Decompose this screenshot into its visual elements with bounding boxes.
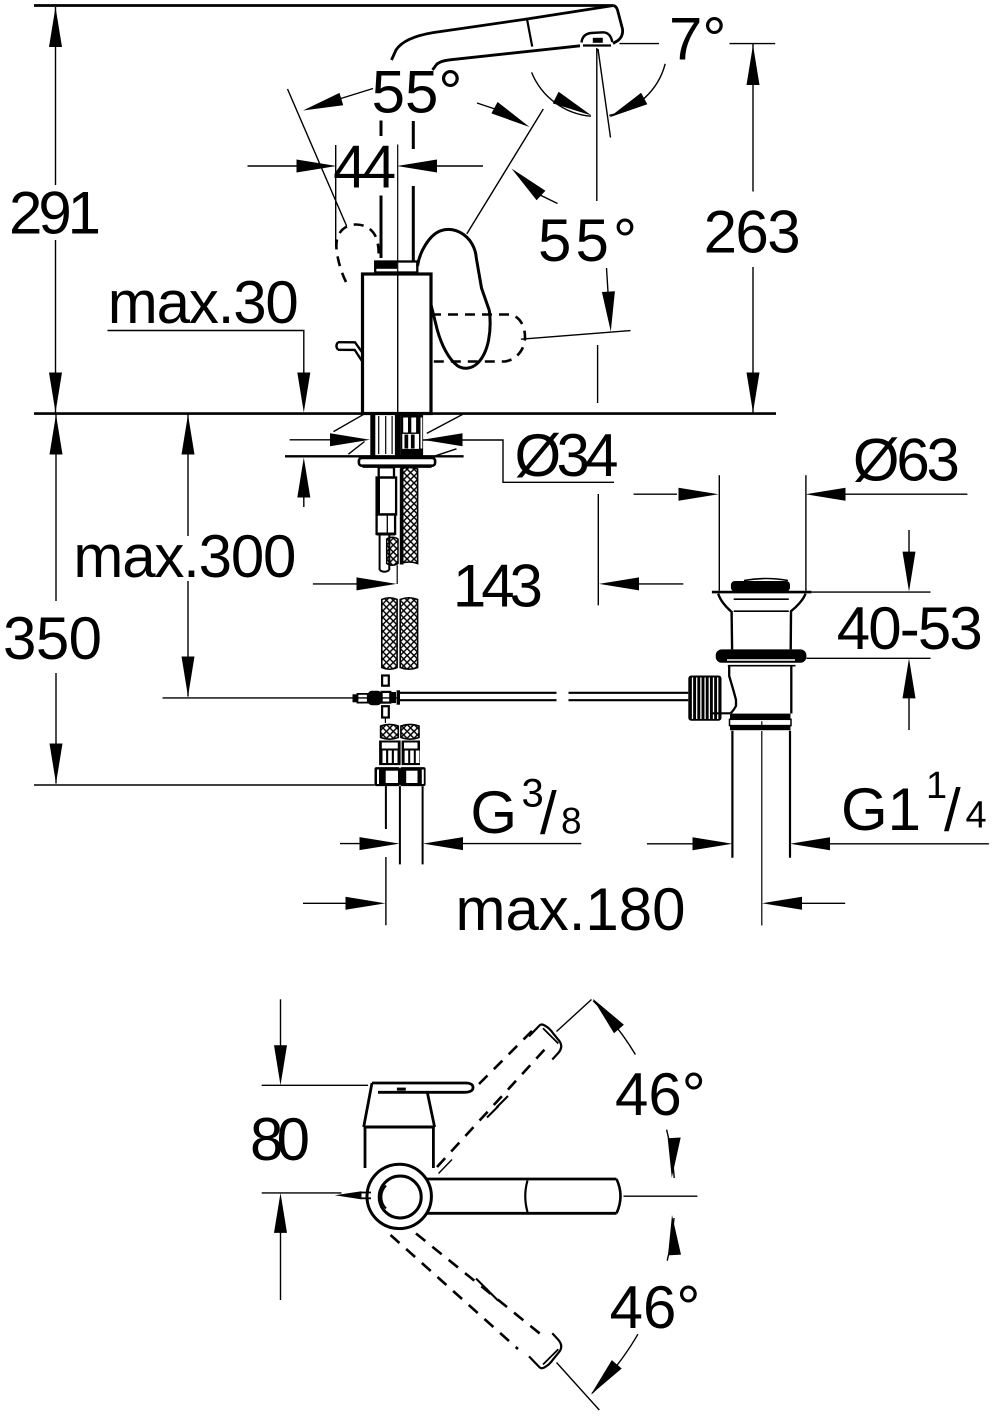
dashed spout up edges — [437, 1048, 546, 1167]
dashed spout up end cap — [529, 1024, 561, 1059]
svg-text:40-53: 40-53 — [837, 595, 983, 662]
tee body — [382, 692, 391, 703]
svg-text:/: / — [944, 777, 961, 844]
drain bottom band 3 — [730, 726, 791, 731]
dashed lever up-left position — [336, 225, 378, 283]
dim 291 line — [55, 7, 57, 185]
svg-text:55°: 55° — [372, 59, 463, 126]
spout right end — [613, 6, 623, 44]
handle bar top view — [372, 1083, 473, 1092]
55 left leader arrow right — [477, 103, 498, 110]
dashed spout up joint ticks — [487, 1106, 499, 1118]
handle base trapezoid — [364, 1083, 372, 1127]
svg-text:max.30: max.30 — [108, 269, 299, 336]
drain flare right — [791, 594, 806, 650]
svg-text:4: 4 — [966, 795, 987, 837]
drain seal ring — [716, 649, 807, 662]
dim 143 arrow — [599, 577, 639, 590]
riser tube dashes — [380, 121, 383, 137]
svg-text:7°: 7° — [669, 6, 726, 73]
svg-text:max.300: max.300 — [73, 523, 296, 590]
55 middle lower leader — [607, 268, 611, 324]
pipes below nuts — [385, 786, 387, 829]
stop valve lower section — [377, 514, 396, 534]
dim O63 extension lines — [718, 475, 720, 591]
spout top edge — [392, 6, 614, 61]
drain plug cap — [731, 581, 790, 592]
top reference line — [34, 4, 614, 7]
svg-text:55°: 55° — [538, 207, 637, 274]
55 left leader arrow left — [336, 89, 373, 101]
body centerline — [397, 145, 399, 414]
mounting flange — [359, 458, 435, 466]
hose end fitting — [382, 676, 389, 686]
dim max300 horizontal leader — [313, 583, 358, 585]
spout joint line — [527, 19, 532, 47]
drain tailpipe — [731, 731, 733, 858]
tee left nut — [368, 691, 382, 705]
svg-text:143: 143 — [453, 553, 543, 620]
spout joint line — [525, 1181, 527, 1213]
svg-text:350: 350 — [3, 605, 102, 672]
svg-text:G: G — [470, 779, 517, 846]
44 dimension — [335, 145, 337, 247]
55 middle upper arrow — [512, 169, 546, 201]
lower braid right band — [400, 598, 417, 670]
svg-text:46°: 46° — [610, 1274, 701, 1341]
dim 40-53 extension lines — [811, 591, 930, 593]
third braid left band — [381, 724, 399, 739]
drain ring bottom line — [728, 665, 796, 667]
svg-text:/: / — [540, 780, 557, 847]
dashed spout down edges — [416, 1234, 540, 1334]
riser tube left — [380, 196, 383, 259]
small braided section — [387, 537, 398, 565]
dim G114 arrows — [647, 843, 694, 845]
shank center black band — [395, 415, 401, 456]
drain center line — [761, 721, 763, 726]
tee right block — [390, 692, 396, 703]
svg-text:263: 263 — [704, 199, 801, 266]
dim 80 arrows — [280, 999, 282, 1047]
dim max30 bottom arrow — [297, 458, 310, 498]
swivel ring outer — [367, 1164, 431, 1228]
shank mounting nut — [401, 415, 424, 456]
spout end cap — [617, 1179, 621, 1213]
svg-text:max.180: max.180 — [456, 876, 686, 943]
faucet body — [363, 274, 432, 414]
dim max180 extension line — [385, 857, 387, 925]
dim max300 line — [187, 415, 189, 537]
supply hose upper braid — [401, 468, 418, 564]
dim 46 lower arc — [667, 1218, 674, 1261]
copper pipe — [379, 536, 381, 571]
7 degree arc left — [532, 72, 591, 116]
stop valve body — [377, 478, 397, 515]
7 degree horizontal reference — [620, 43, 660, 45]
svg-text:8: 8 — [561, 801, 582, 842]
svg-text:46°: 46° — [615, 1061, 706, 1128]
coupling nut right — [400, 767, 426, 786]
dashed spout down joint ticks — [476, 1279, 488, 1291]
drain flare left — [718, 594, 732, 650]
dashed lever horizontal position — [431, 315, 525, 362]
spout bottom edge — [433, 46, 581, 70]
dim O34 leader — [423, 440, 614, 482]
coupling nut left — [375, 767, 401, 786]
dim 350 bottom reference line — [34, 784, 375, 786]
top view lower reference line — [262, 1192, 342, 1194]
counter hatching — [334, 414, 364, 431]
dim G38 arrows — [340, 843, 361, 845]
tube below tee — [382, 706, 389, 717]
pop-up rod horizontal — [400, 692, 557, 694]
spout centerline right — [624, 1195, 698, 1197]
lever axis line L2 — [467, 109, 544, 234]
dim O63 arrows — [634, 493, 677, 495]
drain lower body — [729, 666, 736, 714]
tee left adapter — [353, 694, 358, 702]
horizontal lever axis line — [521, 331, 631, 340]
svg-text:Ø63: Ø63 — [853, 427, 960, 494]
swivel ring inner — [379, 1176, 421, 1218]
dim 263 line — [752, 44, 754, 192]
lower braid left band — [382, 598, 397, 670]
svg-text:Ø34: Ø34 — [515, 422, 619, 489]
shank left black band — [370, 415, 375, 456]
dim 40-53 arrows — [908, 530, 910, 553]
solid lever handle — [418, 229, 491, 368]
dim max180 arrows — [303, 902, 347, 904]
drain knob — [688, 676, 721, 721]
countertop bottom line — [285, 455, 464, 457]
side lever pin top view — [335, 1191, 362, 1199]
7 degree tilted line — [598, 49, 611, 138]
dim 350 line — [55, 415, 57, 602]
riser tube right — [412, 186, 415, 262]
third braid right band — [401, 724, 419, 739]
lever axis line L1 — [288, 89, 347, 226]
aerator nub — [582, 32, 613, 42]
body sides top view — [364, 1127, 367, 1168]
svg-text:80: 80 — [250, 1106, 310, 1173]
shank inner lines — [378, 416, 380, 454]
svg-text:44: 44 — [333, 133, 396, 200]
side lever — [338, 342, 362, 352]
stop valve step — [379, 467, 394, 477]
threaded stud right — [402, 741, 420, 766]
countertop top line — [34, 412, 776, 415]
svg-text:G1: G1 — [841, 776, 921, 843]
spout tube top view — [426, 1178, 617, 1181]
collar — [375, 262, 417, 273]
dim max30 shelf — [108, 330, 305, 332]
pop-up rod left reference line — [163, 697, 401, 699]
spout down centerline — [557, 1363, 600, 1411]
drain body top line — [712, 591, 812, 594]
drain bottom band 2 — [730, 719, 792, 725]
aerator vertical reference line — [596, 48, 598, 201]
spout up centerline — [557, 1000, 592, 1032]
dashed spout down end cap — [529, 1333, 561, 1368]
top view upper reference line — [262, 1084, 368, 1086]
drain bottom band 1 — [730, 714, 791, 720]
threaded stud left — [379, 741, 401, 766]
7 degree arc right — [609, 64, 665, 116]
dim 46 upper arc — [593, 1001, 635, 1055]
swivel ring inner arc — [381, 1186, 386, 1209]
svg-text:291: 291 — [9, 180, 101, 247]
drain inner lines — [734, 598, 789, 600]
